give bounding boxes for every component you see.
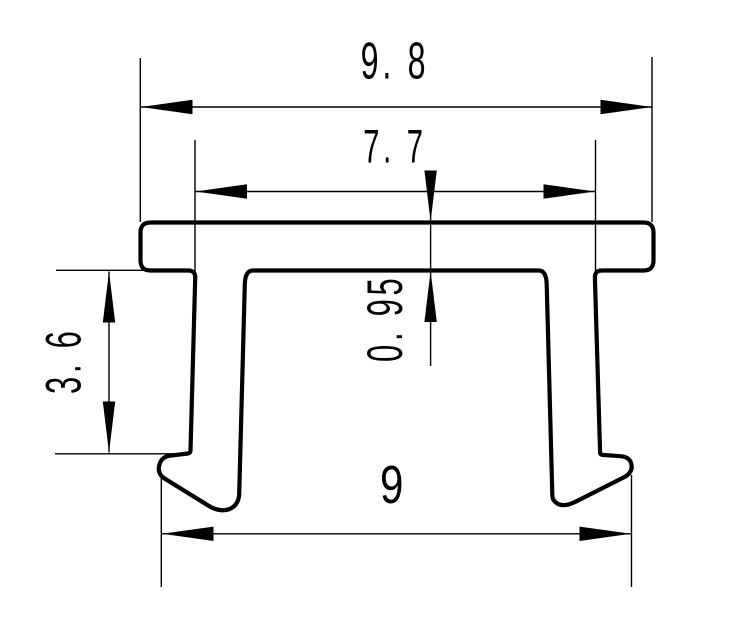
dimension line 9 bottom [162, 527, 631, 541]
extension line 9 right [631, 475, 633, 587]
dimension line 7.7 [196, 184, 596, 198]
profile outline [141, 223, 654, 511]
extension line 9.8 right [651, 57, 653, 222]
dimension line 9.8 [141, 100, 652, 114]
dimension line 3.6 vertical [103, 272, 115, 453]
svg-text:9. 8: 9. 8 [361, 33, 430, 91]
extension line 7.7 left [194, 140, 196, 292]
svg-text:3. 6: 3. 6 [35, 327, 91, 394]
extension line 9 left [160, 475, 162, 587]
extension line 3.6 bottom [55, 453, 176, 455]
svg-text:9: 9 [380, 455, 408, 515]
extension line 7.7 right [595, 140, 597, 292]
dimension line 0.95 vertical [424, 171, 436, 367]
extension line 3.6 top [56, 269, 146, 271]
extension line 9.8 left [139, 58, 141, 222]
svg-text:0. 95: 0. 95 [356, 274, 412, 362]
svg-text:7. 7: 7. 7 [363, 122, 426, 174]
